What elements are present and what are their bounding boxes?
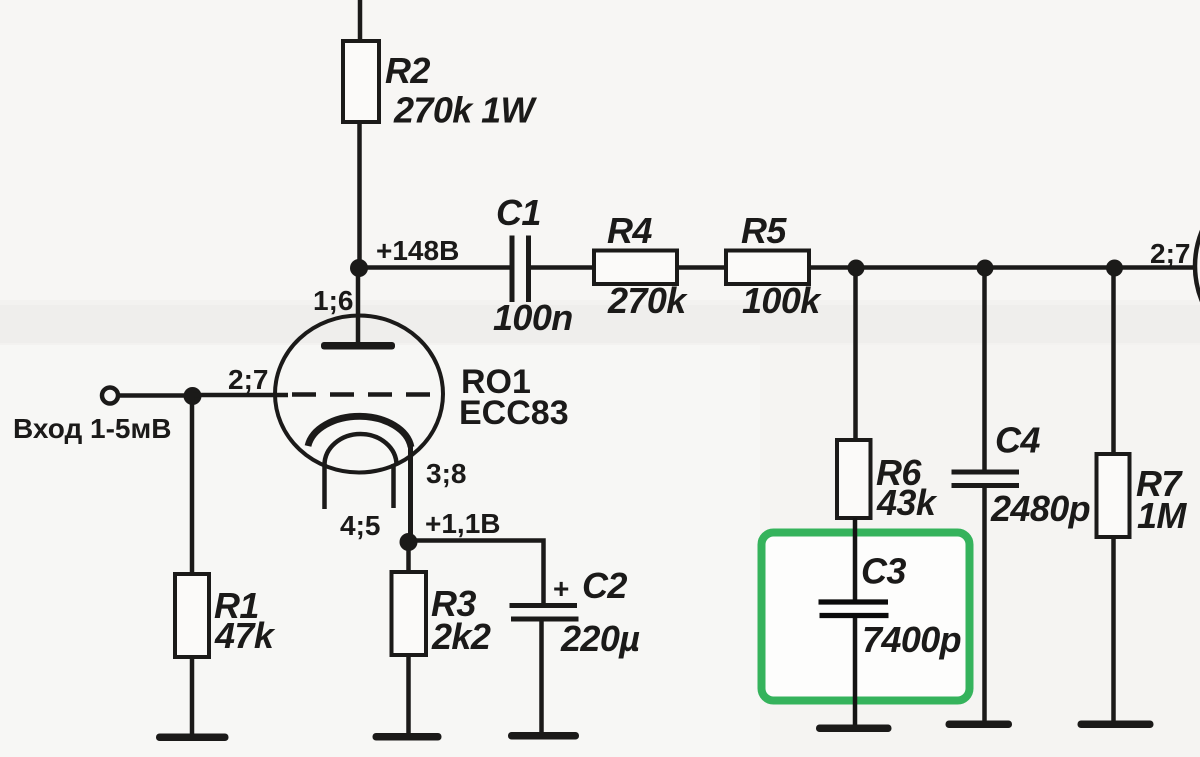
svg-text:43k: 43k <box>876 482 938 523</box>
svg-text:100n: 100n <box>493 297 573 338</box>
svg-text:2480p: 2480p <box>990 488 1090 529</box>
resistor R1 <box>175 574 209 657</box>
heater dome <box>325 434 397 465</box>
wire R4 to R5 <box>677 265 726 270</box>
svg-text:R4: R4 <box>607 210 652 251</box>
heater leg 4 <box>322 464 327 509</box>
wire node B to C4 <box>982 268 987 471</box>
ground C3 <box>816 725 892 733</box>
svg-text:Вход 1-5мВ: Вход 1-5мВ <box>13 413 171 444</box>
capacitor C3 <box>819 602 889 616</box>
svg-text:C1: C1 <box>496 192 541 233</box>
wire C3 to ground <box>853 618 858 728</box>
wire R3 to ground <box>406 655 411 738</box>
ground C4 <box>946 721 1013 729</box>
svg-text:220µ: 220µ <box>560 618 640 659</box>
svg-text:ECC83: ECC83 <box>459 394 569 432</box>
wire C2 to ground <box>539 621 544 737</box>
wire node to R3 <box>406 542 411 572</box>
capacitor C4 <box>952 472 1020 486</box>
svg-text:7400p: 7400p <box>862 619 961 660</box>
wire node to C1 <box>359 265 510 270</box>
svg-text:R2: R2 <box>385 50 430 91</box>
svg-text:C4: C4 <box>995 420 1040 461</box>
svg-text:+148B: +148B <box>376 235 459 266</box>
svg-text:R5: R5 <box>741 210 787 251</box>
heater leg 5 <box>391 464 396 508</box>
ground R3 <box>373 733 442 741</box>
svg-text:100k: 100k <box>742 280 822 321</box>
ground R1 <box>156 734 229 742</box>
resistor R7 <box>1097 454 1130 537</box>
wire C1 to R4 <box>531 265 594 270</box>
wire grid node down <box>190 396 195 574</box>
wire plate lead <box>356 268 361 345</box>
svg-text:270k 1W: 270k 1W <box>393 90 538 131</box>
input terminal <box>102 388 118 404</box>
svg-text:2;7: 2;7 <box>228 364 268 395</box>
highlight box C3 <box>762 533 970 701</box>
wire R6 to C3 <box>853 518 858 601</box>
resistor R4 <box>594 251 677 285</box>
svg-text:C3: C3 <box>861 551 906 592</box>
wire node to C2 <box>409 541 544 606</box>
cathode arc <box>308 416 411 447</box>
grid dashed line <box>292 392 431 397</box>
resistor R2 <box>343 41 379 122</box>
capacitor C1 <box>512 236 529 303</box>
wire output bus <box>809 265 1196 270</box>
wire C4 to ground <box>982 488 987 724</box>
svg-text:+: + <box>553 573 569 604</box>
resistor R5 <box>726 251 809 285</box>
capacitor C2 <box>510 606 579 620</box>
svg-text:47k: 47k <box>214 615 276 656</box>
tube RO1 envelope <box>275 316 443 473</box>
wire node A to R6 <box>853 268 858 440</box>
resistor R6 <box>837 440 871 518</box>
wire R2 bottom <box>357 122 362 270</box>
node A junction R6 <box>848 260 865 277</box>
node grid junction <box>184 387 202 405</box>
node C junction R7 <box>1106 260 1123 277</box>
svg-text:2;7: 2;7 <box>1150 238 1190 269</box>
svg-text:3;8: 3;8 <box>426 458 466 489</box>
svg-text:2k2: 2k2 <box>431 616 491 657</box>
svg-text:270k: 270k <box>607 280 688 321</box>
resistor R3 <box>392 572 427 655</box>
svg-text:1;6: 1;6 <box>313 285 353 316</box>
wire input to grid node <box>119 393 196 398</box>
svg-text:C2: C2 <box>582 565 627 606</box>
ground R7 <box>1078 721 1154 729</box>
node +148B junction <box>350 259 368 277</box>
tube V2 envelope partial <box>1195 174 1200 358</box>
wire R7 to ground <box>1111 537 1116 724</box>
wire R1 to ground <box>190 657 195 738</box>
node cathode junction <box>400 533 418 551</box>
anode plate bar <box>321 342 395 350</box>
wire pin 3;8 cathode <box>408 444 413 542</box>
wire grid node to tube <box>193 393 289 398</box>
wire node C to R7 <box>1111 268 1116 454</box>
wire R2 top <box>358 0 363 45</box>
node B junction C4 <box>977 260 994 277</box>
ground C2 <box>508 732 579 740</box>
svg-text:+1,1B: +1,1B <box>425 508 501 539</box>
svg-text:1M: 1M <box>1137 495 1187 536</box>
svg-text:4;5: 4;5 <box>340 510 380 541</box>
